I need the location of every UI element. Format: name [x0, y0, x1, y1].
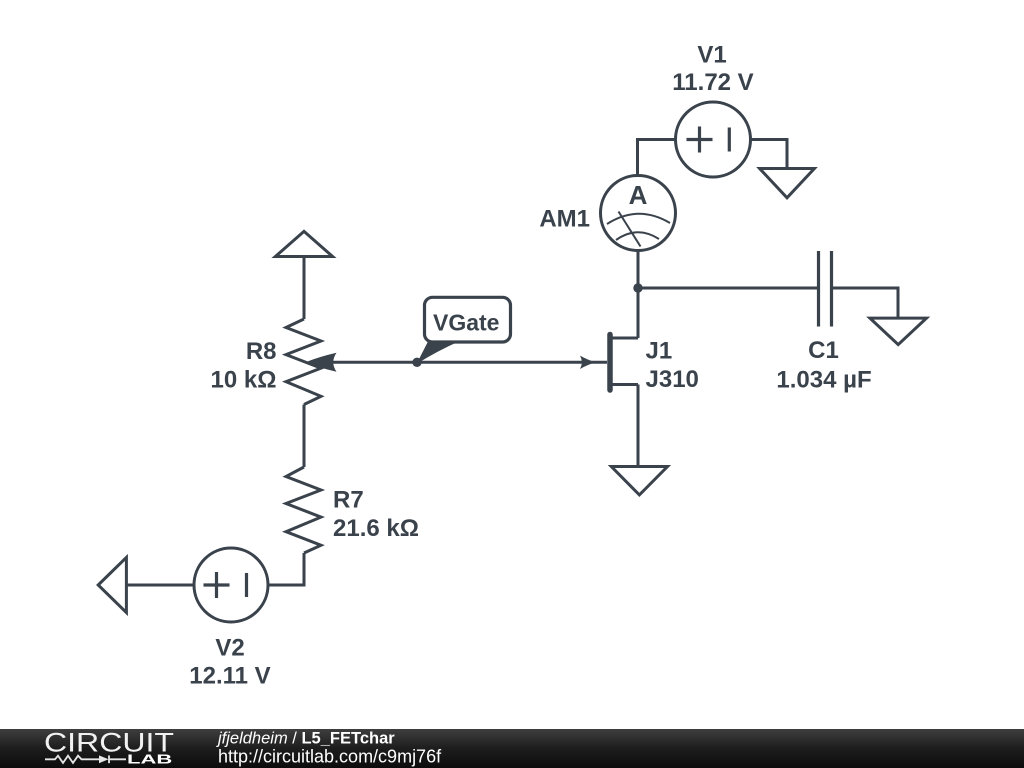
wire (R8 to R7) [303, 405, 306, 468]
node flag VGate callout tail [417, 341, 462, 365]
svg-text:1.034 µF: 1.034 µF [776, 367, 871, 394]
ground (at V1) [760, 169, 815, 198]
svg-text:R7: R7 [333, 487, 364, 514]
svg-text:http://circuitlab.com/c9mj76f: http://circuitlab.com/c9mj76f [218, 746, 442, 766]
node flag VGate box [425, 297, 511, 342]
ground (at J1 source) [611, 467, 667, 495]
wire (V2 minus to left ground) [127, 584, 195, 587]
svg-text:jfjeldheim / L5_FETchar: jfjeldheim / L5_FETchar [216, 730, 395, 748]
svg-text:VGate: VGate [433, 310, 499, 336]
ammeter AM1 [601, 176, 676, 251]
resistor R7 [286, 467, 321, 553]
resistor R8 (potentiometer body) [286, 319, 321, 405]
CircuitLab logo wordmark CIRCUIT [44, 727, 174, 757]
ground flag (left, at V2) [98, 557, 126, 612]
label R8 value [211, 338, 277, 394]
label C1 value [776, 337, 871, 394]
wire (V1 plus to AM1) [638, 140, 676, 177]
junction node (drain / C1) [633, 283, 642, 292]
CircuitLab logo wordmark LAB [127, 753, 172, 767]
wire (junction to C1) [638, 287, 818, 290]
wire (V1 minus to ground) [751, 140, 788, 168]
svg-text:A: A [629, 180, 648, 210]
svg-text:V2: V2 [215, 635, 244, 662]
label V2 value [189, 635, 270, 690]
svg-text:LAB: LAB [127, 753, 172, 767]
footer title: author / circuit name [216, 730, 395, 748]
transistor J1 (N-JFET) [580, 335, 638, 391]
ground flag (top, above R8) [275, 231, 332, 256]
footer url [218, 746, 442, 766]
svg-text:J310: J310 [646, 366, 699, 393]
svg-text:11.72 V: 11.72 V [672, 69, 753, 96]
ground (at C1) [870, 318, 927, 345]
label V1 value [672, 42, 753, 97]
wire (AM1 to J1 drain) [637, 251, 640, 339]
wire (C1 to ground) [832, 288, 899, 317]
capacitor C1 [819, 251, 832, 327]
wire (J1 source to ground) [637, 385, 640, 466]
voltage source V2 [194, 548, 268, 622]
CircuitLab logo squiggle (resistor + diode) [45, 755, 126, 763]
wire (top ground to R8) [303, 258, 306, 319]
label AM1 [539, 206, 590, 233]
svg-text:21.6 kΩ: 21.6 kΩ [333, 515, 419, 542]
label J1 value [646, 338, 699, 393]
node VGate junction dot [412, 358, 421, 367]
svg-text:10 kΩ: 10 kΩ [211, 367, 277, 394]
svg-text:V1: V1 [697, 42, 726, 69]
potentiometer R8 wiper arrow [306, 353, 337, 372]
voltage source V1 [676, 102, 751, 177]
wire (R7 to V2) [268, 553, 304, 585]
svg-text:12.11 V: 12.11 V [189, 663, 270, 690]
svg-text:C1: C1 [808, 337, 839, 364]
footer bar [0, 729, 1024, 768]
svg-text:J1: J1 [646, 338, 673, 365]
svg-text:AM1: AM1 [539, 206, 590, 233]
wire (net VGate: R8 wiper to J1 gate) [330, 361, 607, 364]
label R7 value [333, 487, 419, 543]
svg-text:R8: R8 [246, 338, 277, 365]
